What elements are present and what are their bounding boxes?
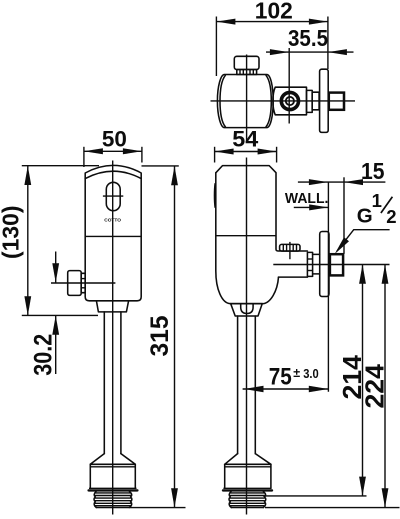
dim 30.2 upper arrow/tail (55, 252, 57, 284)
dim 15 arrow at stub end (344, 179, 363, 185)
side centerline (246, 158, 248, 515)
svg-text:102: 102 (255, 0, 293, 23)
dim 50 line (84, 150, 142, 152)
body mid seam (85, 235, 141, 237)
front centerline (112, 161, 114, 515)
bottom collar (front) (96, 301, 128, 312)
dim 54 ticks (214, 147, 216, 163)
wall flange plate (top view) (320, 69, 329, 132)
hex nut G1/2 (thick) (330, 254, 343, 275)
side body left edge down to collar (216, 173, 231, 304)
dim 224 arrows (382, 264, 389, 283)
dim 102 arrow left (216, 19, 235, 25)
sensor oval (106, 182, 120, 210)
knob centerline (51, 282, 115, 284)
svg-text:2: 2 (386, 206, 396, 227)
dim 102 line (216, 21, 328, 23)
svg-text:30.2: 30.2 (30, 334, 58, 376)
dim (130) bottom extension (shared with 30.2) (22, 314, 98, 316)
side collar trapezoid (231, 304, 263, 316)
collar ring after arm (307, 252, 312, 276)
side knob serrations (81, 273, 85, 292)
dim 75 arrows (244, 386, 264, 392)
svg-text:35.5: 35.5 (288, 25, 328, 51)
vertical centerline valve circle (288, 48, 290, 124)
front body outline (85, 165, 141, 300)
svg-text:(130): (130) (0, 205, 24, 259)
barrel inner arc right (266, 75, 271, 127)
svg-text:54: 54 (232, 127, 259, 152)
dim 224 line (384, 264, 386, 507)
WALL leader arrow (294, 206, 328, 208)
G1/2 leader arrowhead (335, 237, 349, 254)
top view barrel body (217, 75, 273, 128)
vertical centerline barrel (246, 55, 248, 141)
adjuster centerline (289, 242, 291, 259)
dim 214 line (362, 264, 364, 496)
spreader flange (side) (223, 487, 271, 489)
spreader body (side) (224, 464, 226, 488)
side knob (front view) (68, 271, 82, 296)
dim (130) line (27, 166, 29, 316)
dim 30.2 lower arrow/tail (55, 316, 57, 375)
side body right lower edge from arm to collar (231, 277, 279, 304)
dim 315 bottom extension (130, 507, 186, 509)
valve ring inner (286, 97, 294, 105)
dim 15 extension line (343, 177, 345, 254)
svg-text:50: 50 (102, 127, 127, 152)
dim 50 ticks (83, 147, 85, 167)
pipe into flange (313, 253, 320, 255)
side body top and right edge (216, 166, 308, 251)
svg-text:315: 315 (146, 315, 174, 356)
spreader flare (front) (90, 454, 135, 465)
dim 102 arrow right (309, 19, 328, 25)
arm bottom line (279, 276, 308, 278)
step cylinder 2 (312, 92, 319, 110)
step cylinder 1 (307, 90, 313, 112)
dim 102 extension right (327, 17, 329, 70)
front body inner top arc (85, 171, 141, 178)
knob neck with serrations (237, 70, 257, 75)
spreader flare (side) (225, 454, 271, 465)
sensor oval tick line (103, 195, 123, 197)
dim 35.5 arrow at valve centerline (270, 49, 289, 55)
horizontal centerline top view (211, 100, 356, 102)
valve ring outer (thick) (281, 92, 298, 109)
dim 102 extension left (215, 17, 217, 77)
dim 15 arrow at wall (309, 179, 328, 185)
dim (130) arrows (24, 166, 31, 185)
dim 214 bottom extension (263, 495, 367, 497)
dim 54 arrows (215, 149, 234, 155)
dim 75 line (243, 388, 329, 390)
svg-text:75: 75 (269, 364, 292, 391)
knob cap on top of barrel (234, 56, 259, 69)
dim 224 bottom extension (265, 507, 400, 509)
svg-text:15: 15 (361, 158, 385, 184)
threads (front) (94, 492, 96, 508)
threads (side) (229, 492, 231, 508)
dim 35.5 line (266, 51, 354, 53)
svg-text:3.0: 3.0 (303, 367, 319, 381)
dim 315 arrows (171, 166, 178, 185)
dim 15 line (298, 181, 386, 183)
dim 315 top extension (142, 165, 179, 167)
serrated adjuster cap on arm (280, 244, 300, 251)
barrel inner arc left (220, 75, 225, 127)
valve block (273, 87, 307, 115)
pipe (front) (103, 312, 105, 454)
collar semicircle detail (241, 304, 253, 313)
dim 50 arrows (84, 148, 103, 154)
arm horizontal centerline extends right (273, 264, 389, 266)
svg-text:1: 1 (372, 190, 382, 211)
dim 214 arrows (359, 264, 366, 283)
G1/2 leader line (337, 230, 390, 252)
wall flange plate (side view) (320, 232, 329, 297)
svg-text:±: ± (293, 366, 300, 380)
dim 54 line (215, 151, 277, 153)
dim 315 line (174, 166, 176, 508)
G1/2 stub (top view, thick) (329, 93, 344, 110)
svg-text:WALL.: WALL. (285, 191, 329, 207)
dark seam arc on left edge (214, 183, 217, 208)
dim (130) top extension (22, 165, 99, 167)
dim 35.5 arrow at wall (328, 49, 347, 55)
spreader flange (front) (89, 487, 137, 489)
spreader body (front) (89, 464, 91, 488)
side body mid seam (216, 235, 276, 237)
wall line (327, 182, 329, 392)
pipe (side) (237, 316, 239, 454)
svg-text:224: 224 (360, 364, 390, 409)
svg-text:G: G (357, 204, 373, 227)
